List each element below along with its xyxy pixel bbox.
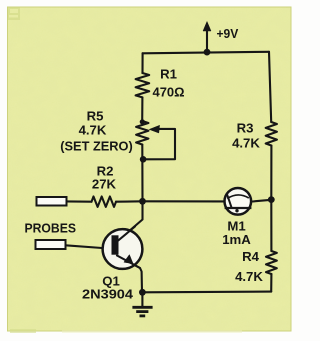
svg-text:1mA: 1mA — [222, 232, 251, 247]
wire meter to right rail — [252, 200, 271, 202]
node dot +9V on top rail — [204, 49, 211, 56]
probe 1 — [37, 197, 67, 206]
node dot emitter/ground junction — [139, 289, 146, 296]
node dot meter/right rail — [268, 196, 275, 203]
wire left branch top (rail to R1) — [141, 53, 143, 73]
wire R1 to R5 — [141, 97, 143, 121]
svg-text:+9V: +9V — [217, 26, 239, 41]
transistor Q1 base bar — [112, 235, 119, 254]
potentiometer R5 — [136, 121, 148, 145]
node dot R5 bottom — [140, 156, 147, 163]
meter M1 needle — [227, 194, 232, 208]
wire bottom rail — [143, 291, 272, 294]
wire right rail R3 to meter node — [270, 146, 272, 200]
svg-text:R4: R4 — [242, 249, 260, 264]
wire probe2 to base — [66, 245, 103, 248]
wire collector node to meter — [143, 200, 224, 202]
svg-text:4.7K: 4.7K — [235, 269, 263, 284]
wire right rail R4 to bottom corner — [270, 274, 272, 292]
node dot R2/collector junction — [139, 198, 146, 205]
meter M1 scale arc — [227, 195, 249, 199]
svg-text:2N3904: 2N3904 — [82, 287, 134, 302]
+9V supply arrow — [206, 29, 208, 52]
ground symbol — [141, 292, 143, 307]
svg-text:4.7K: 4.7K — [232, 136, 260, 151]
resistor R3 — [266, 122, 277, 146]
meter M1 circle — [225, 188, 252, 215]
resistor R1 — [136, 73, 150, 97]
svg-text:PROBES: PROBES — [25, 221, 77, 236]
transistor Q1 collector inside — [117, 227, 135, 242]
wire top rail — [143, 52, 269, 54]
svg-text:(SET ZERO): (SET ZERO) — [60, 139, 133, 154]
wire R2 to collector node — [116, 200, 143, 202]
meter M1 bottom chord — [225, 207, 252, 209]
wire R5 bottom to collector node — [141, 145, 143, 202]
probe 2 — [36, 240, 66, 249]
meter M1 pivot dot — [235, 209, 238, 212]
transistor Q1 collector lead — [117, 201, 143, 241]
wire right rail meter node to R4 — [270, 200, 272, 251]
resistor R4 — [266, 251, 277, 274]
resistor R2 — [92, 197, 117, 207]
transistor Q1 emitter lead — [117, 256, 142, 293]
svg-text:R1: R1 — [160, 67, 177, 82]
svg-text:4.7K: 4.7K — [79, 123, 107, 138]
svg-text:R3: R3 — [237, 121, 254, 136]
R5 wiper arrow and loop — [143, 129, 175, 159]
svg-text:27K: 27K — [92, 177, 117, 192]
transistor Q1 circle — [103, 229, 143, 269]
wire probe1 to R2 — [67, 200, 92, 202]
wire right rail upper (top corner to R3) — [269, 52, 271, 122]
transistor Q1 emitter inside + arrow — [117, 256, 140, 269]
svg-text:R5: R5 — [87, 109, 104, 124]
svg-text:470Ω: 470Ω — [153, 85, 185, 100]
